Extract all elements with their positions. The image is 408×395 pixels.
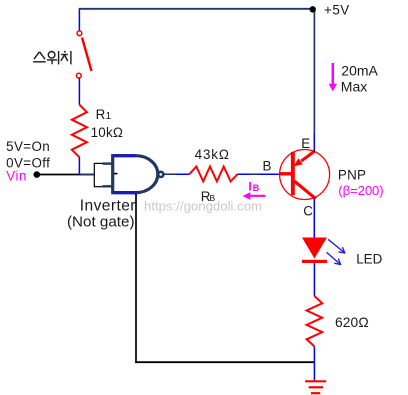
svg-text:5V=On: 5V=On: [6, 139, 50, 154]
svg-text:(Not gate): (Not gate): [67, 213, 135, 230]
svg-text:43kΩ: 43kΩ: [195, 147, 230, 162]
svg-text:+5V: +5V: [324, 3, 350, 18]
svg-text:(β=200): (β=200): [338, 183, 383, 198]
svg-text:Vin: Vin: [6, 169, 27, 184]
svg-text:10kΩ: 10kΩ: [91, 125, 124, 140]
svg-text:20mA: 20mA: [341, 62, 378, 78]
svg-text:PNP: PNP: [338, 167, 366, 182]
svg-text:Inverter: Inverter: [80, 197, 136, 214]
svg-text:Max: Max: [341, 78, 367, 94]
svg-text:B: B: [263, 158, 272, 173]
svg-text:LED: LED: [356, 251, 382, 266]
svg-text:C: C: [303, 203, 313, 218]
svg-text:E: E: [301, 136, 310, 151]
svg-text:620Ω: 620Ω: [335, 315, 369, 330]
